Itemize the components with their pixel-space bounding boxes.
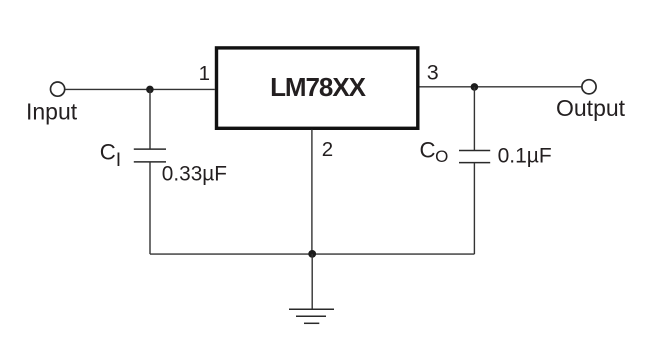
wire output junction down to CO top <box>473 87 475 151</box>
svg-text:C: C <box>100 139 116 164</box>
svg-text:3: 3 <box>427 61 439 85</box>
svg-text:LM78XX: LM78XX <box>270 72 367 102</box>
wire CI bottom to ground rail <box>149 162 151 254</box>
wire CO bottom to ground rail <box>473 163 475 255</box>
wire ground rail <box>150 253 474 255</box>
label CO <box>420 138 449 166</box>
wire input junction down to CI top <box>149 89 151 149</box>
svg-text:I: I <box>116 149 121 171</box>
svg-text:0.33µF: 0.33µF <box>162 163 227 186</box>
node input junction <box>146 86 154 94</box>
output terminal <box>582 80 596 94</box>
wire pin 2 down to ground rail <box>311 130 313 255</box>
node ground junction <box>308 250 316 258</box>
ground <box>289 309 334 323</box>
node output junction <box>471 83 479 91</box>
label CI <box>100 139 121 171</box>
wire pin 3 to output terminal <box>420 86 582 88</box>
wire input terminal to pin 1 <box>65 88 215 90</box>
capacitor CI <box>134 149 166 162</box>
op-amp U1 LM78XX regulator body <box>217 48 418 128</box>
svg-text:Output: Output <box>556 95 626 121</box>
svg-text:0.1µF: 0.1µF <box>498 144 552 167</box>
svg-text:Input: Input <box>26 98 78 124</box>
svg-text:C: C <box>420 138 436 163</box>
svg-text:1: 1 <box>199 62 210 85</box>
capacitor CO <box>459 151 490 163</box>
input terminal <box>51 82 65 96</box>
svg-text:O: O <box>435 147 448 166</box>
svg-text:2: 2 <box>322 138 333 161</box>
wire ground junction to ground symbol <box>311 254 313 309</box>
